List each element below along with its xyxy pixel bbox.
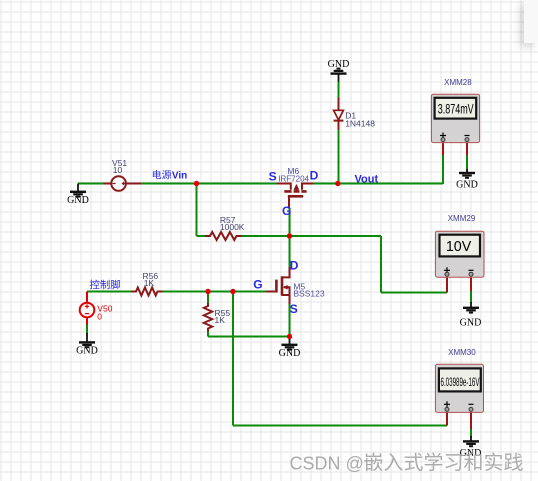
wire XMM30 bottom horizontal xyxy=(233,425,447,427)
wire Vin node down to R57 xyxy=(196,184,198,237)
svg-text:GND: GND xyxy=(460,318,482,329)
junction gate/XMM30 node xyxy=(230,289,235,294)
svg-text:1K: 1K xyxy=(144,278,155,288)
svg-text:1000K: 1000K xyxy=(220,222,245,232)
wire R57 left lead xyxy=(197,235,206,237)
transistor M6 IRF7204 (PMOS) xyxy=(269,166,319,218)
wire XMM28 minus lead xyxy=(466,155,468,172)
wire XMM29 minus to GND xyxy=(470,291,472,303)
svg-text:S: S xyxy=(290,302,298,316)
pin XMM28 - stub xyxy=(466,143,468,156)
wire M6 drain to XMM28 (net Vout) xyxy=(313,183,443,185)
resistor R57 (1000K) xyxy=(205,215,245,240)
svg-text:GND: GND xyxy=(460,448,482,459)
svg-text:3.874mV: 3.874mV xyxy=(438,102,474,117)
ground top (above D1) xyxy=(328,59,350,82)
svg-text:10V: 10V xyxy=(446,238,472,255)
wire M5 source to GND node xyxy=(289,304,291,337)
junction Vout/D1 node xyxy=(335,181,340,186)
svg-text:GND: GND xyxy=(67,195,89,206)
multimeter XMM28 xyxy=(431,78,479,143)
wire GND to D1 anode xyxy=(338,81,340,98)
ground XMM29 minus xyxy=(460,302,482,329)
wire M6 gate to M5 drain vertical xyxy=(289,208,291,267)
junction gate/R55 node xyxy=(205,289,210,294)
svg-text:XMM28: XMM28 xyxy=(444,78,472,87)
ground XMM30 minus xyxy=(460,436,482,459)
voltage source V51 (10) xyxy=(104,158,142,191)
wire XMM28 plus lead xyxy=(442,155,444,184)
multimeter XMM29 xyxy=(435,214,484,277)
svg-text:IRF7204: IRF7204 xyxy=(278,175,309,184)
pin XMM29 - stub xyxy=(470,277,472,291)
wire XMM29 link vertical xyxy=(380,236,382,293)
ground under V50 xyxy=(76,333,98,356)
pin XMM28 + stub xyxy=(442,143,444,156)
resistor R55 (1K) xyxy=(204,303,231,332)
svg-text:GND: GND xyxy=(456,180,478,191)
svg-text:Vin: Vin xyxy=(172,170,187,181)
voltage source V50 (0, selected) xyxy=(80,292,113,325)
svg-text:6.03989e-16V: 6.03989e-16V xyxy=(441,375,480,389)
resistor R56 (1K) xyxy=(131,271,163,296)
wire R57 right to drain node xyxy=(242,235,290,237)
net label 控制脚 xyxy=(90,280,120,290)
net label 电源Vin xyxy=(153,170,187,181)
wire GND to V51 (Vin rail left) xyxy=(78,183,104,185)
wire R55 bottom lead xyxy=(207,332,209,337)
ground left of V51 xyxy=(67,184,89,207)
svg-text:10: 10 xyxy=(113,165,123,175)
pin XMM29 + stub xyxy=(446,277,448,293)
diode D1 1N4148 xyxy=(334,98,376,131)
svg-text:Vout: Vout xyxy=(355,174,379,186)
transistor M5 BSS123 (NMOS) xyxy=(253,259,325,317)
junction Vin/R57 node xyxy=(194,181,199,186)
svg-text:1N4148: 1N4148 xyxy=(345,118,375,128)
junction drain node (R57/M6 gate/M5 drain/XMM29) xyxy=(287,233,292,238)
wire gate node down to XMM30 vertical xyxy=(232,292,234,426)
pin XMM30 - stub xyxy=(470,413,472,430)
svg-text:BSS123: BSS123 xyxy=(293,288,324,298)
svg-text:GND: GND xyxy=(328,59,350,70)
svg-text:1K: 1K xyxy=(215,315,226,325)
svg-text:0: 0 xyxy=(97,312,102,322)
svg-text:D: D xyxy=(310,169,319,183)
multimeter XMM30 xyxy=(435,348,483,412)
svg-text:XMM29: XMM29 xyxy=(448,214,476,223)
svg-text:CSDN @: CSDN @ xyxy=(290,454,364,474)
watermark CSDN xyxy=(290,453,523,474)
pin XMM30 + stub xyxy=(446,413,448,426)
wire XMM30 minus to GND xyxy=(470,429,472,437)
floating panel top-right xyxy=(524,0,538,43)
wire XMM29 link horizontal xyxy=(381,292,447,294)
ground XMM28 minus xyxy=(456,169,478,191)
wire V51 to M6 source (net 电源Vin) xyxy=(141,183,277,185)
svg-text:GND: GND xyxy=(279,348,301,359)
svg-text:XMM30: XMM30 xyxy=(448,348,476,357)
svg-text:GND: GND xyxy=(76,345,98,356)
wire D1 cathode to Vout rail xyxy=(338,130,340,184)
wire R56 to M5 gate xyxy=(163,291,267,293)
svg-text:G: G xyxy=(282,204,291,218)
ground under M5 source xyxy=(279,337,301,360)
wire V50 minus to GND xyxy=(86,325,88,335)
svg-text:D: D xyxy=(290,259,299,273)
svg-text:S: S xyxy=(269,170,277,184)
wire drain node to XMM29 horizontal xyxy=(290,235,382,237)
svg-text:G: G xyxy=(253,278,262,292)
wire R55 top lead xyxy=(207,292,209,304)
junction M5 source/R55/GND node xyxy=(287,334,292,339)
wire 控制脚 net to R56 xyxy=(87,291,131,293)
wire R55 to M5 source node xyxy=(208,336,290,338)
